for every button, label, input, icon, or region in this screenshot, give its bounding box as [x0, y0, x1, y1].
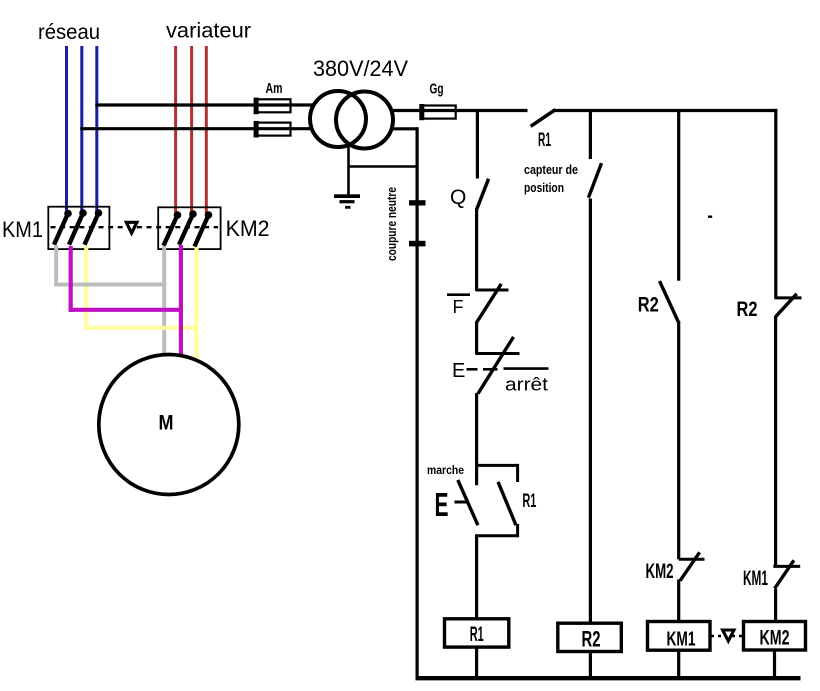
- svg-text:réseau: réseau: [38, 21, 100, 44]
- svg-text:KM2: KM2: [226, 216, 270, 241]
- svg-text:R2: R2: [582, 626, 601, 651]
- coil link dashed: [711, 635, 742, 638]
- svg-text:KM1: KM1: [2, 217, 43, 242]
- wire phase L3 blue: [95, 46, 98, 213]
- coil R1 box: [445, 619, 509, 647]
- switch R1 capteur blade: [531, 110, 556, 127]
- wire top rail right segment: [554, 109, 778, 112]
- contactor KM2 box: [158, 207, 220, 249]
- svg-text:R1: R1: [538, 130, 551, 151]
- marche branch top bar: [475, 464, 518, 467]
- label F overbar: [447, 293, 470, 296]
- wire tap L2 to fuse Am2: [80, 127, 313, 130]
- col2 wire to coil R2: [589, 199, 592, 625]
- contact arret bar: [476, 352, 520, 355]
- wire tap L3 to fuse Am1: [95, 103, 315, 106]
- svg-text:position: position: [524, 180, 564, 195]
- E dashes: [467, 368, 498, 371]
- svg-text:KM2: KM2: [646, 560, 674, 583]
- wire variateur phase 2 red: [190, 46, 193, 214]
- wire neutral rail vertical: [416, 127, 419, 679]
- KM2 pole 1: [164, 211, 182, 246]
- contact KM2 NC blade: [680, 552, 700, 581]
- ground symbol: [334, 194, 360, 208]
- wire grey KM1 stub: [54, 245, 58, 287]
- col1 wire F to arret: [475, 322, 478, 355]
- col1 wire to coil R1: [475, 536, 478, 620]
- col2 wire top: [589, 111, 592, 160]
- transformer T1 secondary circle: [336, 92, 393, 149]
- contact F bar: [476, 289, 509, 292]
- svg-text:R2: R2: [638, 294, 659, 317]
- svg-text:E: E: [435, 486, 449, 523]
- wire ground link to neutral rail: [349, 165, 419, 168]
- col4 wire coil to rail: [773, 650, 776, 679]
- transformer T1 primary circle: [310, 91, 366, 147]
- svg-text:variateur: variateur: [166, 20, 251, 43]
- contact KM1 NC blade: [775, 560, 794, 588]
- motor M circle: [99, 355, 239, 495]
- wire grey KM2 to motor: [162, 246, 166, 355]
- marche branch right vert upper: [516, 464, 519, 482]
- wire transformer to ground: [347, 146, 350, 197]
- contact R2 NC bar: [774, 296, 801, 299]
- svg-text:M: M: [159, 412, 174, 435]
- svg-text:E: E: [452, 360, 465, 382]
- contact arret blade: [478, 337, 514, 394]
- svg-text:Am: Am: [266, 80, 283, 97]
- svg-text:KM2: KM2: [760, 627, 790, 650]
- fuse Am2: [254, 121, 291, 138]
- svg-text:arrêt: arrêt: [505, 375, 548, 395]
- contact KM1 NC bar: [773, 565, 800, 568]
- wire magenta KM1 stub: [69, 246, 73, 312]
- mechanical link dashed KM1-KM2: [51, 226, 219, 228]
- col1 wire top: [476, 111, 479, 179]
- svg-text:KM1: KM1: [667, 627, 696, 650]
- KM2 pole 2: [179, 210, 197, 245]
- col3 wire coil to rail: [677, 650, 680, 679]
- col2 contact blade: [588, 163, 601, 198]
- neutral rail fuse tick 2: [409, 241, 426, 247]
- col4 wire top: [774, 109, 777, 298]
- svg-text:R2: R2: [737, 298, 758, 321]
- fuse Am1: [254, 98, 291, 115]
- svg-text:R1: R1: [470, 623, 484, 646]
- col3 wire top: [677, 111, 680, 281]
- coil KM1 box: [648, 622, 711, 651]
- col4 wire middle: [774, 316, 777, 566]
- coil link triangle: [723, 630, 734, 641]
- contactor KM1 box: [48, 207, 109, 249]
- col1 wire arret to marche: [475, 393, 478, 485]
- wire yellow KM1 stub: [84, 246, 88, 330]
- svg-text:R1: R1: [522, 491, 536, 512]
- bottom rail: [416, 676, 801, 680]
- wire magenta horizontal: [69, 308, 183, 312]
- contact R1 hold blade: [498, 482, 516, 525]
- wire phase L1 blue: [65, 46, 68, 213]
- KM1 pole 1: [54, 210, 72, 245]
- neutral rail fuse tick 1: [409, 200, 426, 205]
- svg-text:capteur de: capteur de: [524, 162, 578, 177]
- wire phase L2 blue: [80, 46, 83, 213]
- button marche blade: [458, 480, 478, 525]
- contact R2 NC blade: [776, 294, 797, 317]
- wire grey horizontal: [54, 283, 166, 287]
- col3 wire middle: [677, 321, 680, 559]
- svg-text:KM1: KM1: [743, 567, 768, 590]
- marche branch bottom bar: [475, 534, 518, 537]
- svg-text:380V/24V: 380V/24V: [313, 56, 408, 81]
- wire transformer output 24V: [390, 109, 457, 112]
- col1 wire Q to F: [475, 208, 478, 291]
- svg-text:Q: Q: [450, 186, 466, 209]
- wire top rail left segment: [457, 109, 528, 112]
- coil KM2 box: [744, 622, 806, 651]
- button E dash: [455, 501, 469, 504]
- col1 wire coil to rail: [475, 647, 478, 679]
- label arret overbar: [504, 367, 549, 370]
- contact R2 NO blade: [660, 281, 679, 323]
- wire yellow KM2 to motor: [194, 247, 198, 362]
- col3 wire to coil KM1: [677, 580, 680, 623]
- wire magenta KM2 to motor: [179, 245, 183, 355]
- interlock triangle: [126, 222, 137, 233]
- coil R2 box: [558, 623, 622, 651]
- wire variateur phase 1 red: [174, 46, 177, 214]
- switch Q blade: [477, 179, 489, 209]
- col4 wire to coil KM2: [774, 589, 777, 622]
- fuse Gg: [419, 104, 455, 120]
- KM1 pole 2: [69, 209, 87, 245]
- stray mark: [708, 216, 712, 218]
- svg-text:coupure neutre: coupure neutre: [384, 187, 399, 261]
- KM1 pole 3: [85, 209, 103, 245]
- wire transformer neutral: [391, 127, 419, 130]
- contact F blade: [476, 284, 501, 323]
- col2 wire coil to rail: [589, 652, 592, 679]
- wire variateur phase 3 red: [205, 46, 208, 214]
- svg-text:Gg: Gg: [430, 81, 444, 98]
- KM2 pole 3: [195, 211, 213, 246]
- marche branch right vert lower: [516, 524, 519, 537]
- wire yellow horizontal: [84, 326, 198, 330]
- contact KM2 NC bar: [679, 558, 705, 561]
- svg-text:marche: marche: [427, 463, 464, 477]
- svg-text:F: F: [453, 297, 464, 317]
